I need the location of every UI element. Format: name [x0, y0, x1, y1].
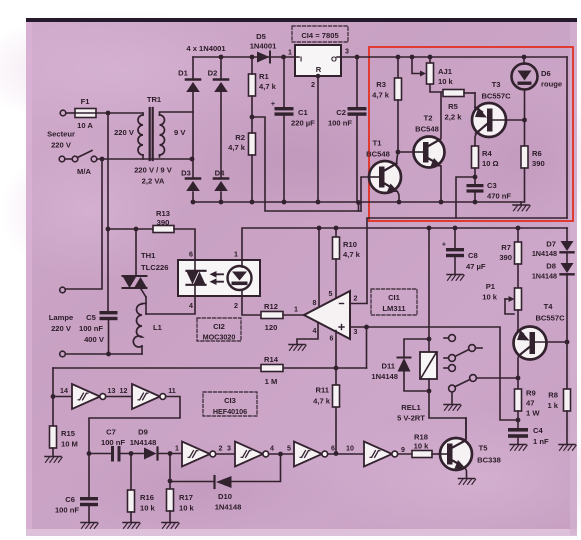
wire R4 to C3 node — [473, 168, 478, 184]
svg-text:5: 5 — [329, 290, 333, 298]
svg-text:P1: P1 — [486, 282, 496, 291]
resistor R2 — [228, 133, 255, 155]
svg-text:100 nF: 100 nF — [55, 506, 79, 515]
svg-text:1: 1 — [288, 49, 292, 57]
resistor R10 — [333, 228, 361, 298]
svg-text:4,7 k: 4,7 k — [259, 82, 277, 91]
svg-text:13: 13 — [108, 387, 116, 395]
svg-text:D5: D5 — [256, 32, 266, 41]
resistor R3 — [372, 57, 401, 100]
svg-text:1 nF: 1 nF — [533, 437, 549, 446]
svg-text:AJ1: AJ1 — [438, 67, 453, 76]
gate inverter 1 — [53, 384, 115, 409]
comparator U CI1 LM311 — [294, 290, 358, 343]
svg-text:220 V / 9 V: 220 V / 9 V — [134, 166, 173, 175]
svg-text:R8: R8 — [548, 391, 558, 400]
svg-text:T3: T3 — [492, 80, 501, 89]
svg-text:10 M: 10 M — [61, 440, 78, 449]
svg-text:HEF40106: HEF40106 — [213, 407, 247, 416]
ground (comparator pin4) — [289, 345, 306, 351]
svg-text:220 V: 220 V — [114, 128, 135, 137]
svg-text:6: 6 — [330, 335, 334, 343]
svg-text:D9: D9 — [138, 428, 148, 437]
wire timing rail left drop to R15 — [51, 368, 56, 426]
svg-text:1 W: 1 W — [526, 409, 540, 418]
svg-text:390: 390 — [157, 218, 170, 227]
svg-text:4: 4 — [270, 445, 274, 453]
diode D2 — [208, 69, 228, 93]
resistor R6 — [521, 120, 545, 202]
ground (C8) — [447, 275, 464, 281]
wire triac feed drop — [134, 227, 139, 275]
svg-text:R7: R7 — [501, 243, 511, 252]
svg-text:47: 47 — [526, 399, 534, 408]
wire lamp bottom terminal to L1 — [60, 351, 142, 357]
svg-text:R16: R16 — [140, 493, 154, 502]
svg-text:10 Ω: 10 Ω — [482, 159, 499, 168]
resistor R18 — [412, 433, 440, 458]
wire +5V output rail — [341, 55, 567, 60]
wire long timing rail — [53, 367, 367, 369]
svg-text:REL1: REL1 — [401, 403, 421, 412]
resistor R1 — [249, 72, 277, 96]
svg-text:2,2 k: 2,2 k — [445, 113, 463, 122]
inductor L1 — [133, 304, 162, 355]
transformer TR1 — [114, 95, 186, 186]
svg-text:R12: R12 — [264, 302, 278, 311]
svg-text:BC548: BC548 — [415, 125, 439, 134]
svg-text:R3: R3 — [376, 80, 386, 89]
gate inverter 4 — [227, 442, 274, 467]
svg-text:D11: D11 — [381, 362, 395, 371]
wire M/A to TR1 primary bottom and bridge left column — [97, 157, 194, 162]
ground (R15) — [45, 457, 62, 463]
svg-text:220 V: 220 V — [51, 324, 72, 333]
wire +9V top rail — [193, 55, 295, 60]
svg-text:R18: R18 — [414, 433, 428, 442]
wire pin3 to R14 rail riser — [366, 327, 368, 368]
capacitor C7 — [101, 428, 144, 462]
svg-text:+: + — [442, 241, 446, 249]
svg-text:6: 6 — [189, 251, 193, 259]
svg-text:9 V: 9 V — [174, 128, 186, 137]
wire R13 to opto pin6 — [174, 229, 195, 260]
regulator U CI4 7805 — [288, 26, 349, 89]
node T3 emitter / D6 junction — [522, 118, 527, 123]
resistor R7 — [499, 228, 521, 288]
triac TH1 — [123, 251, 169, 297]
resistor R8 — [547, 342, 570, 444]
wire opto pin2 to R12 — [242, 296, 261, 315]
svg-text:CI1: CI1 — [388, 293, 401, 302]
svg-text:400 V: 400 V — [84, 335, 105, 344]
relay contacts — [444, 335, 520, 404]
svg-text:9: 9 — [401, 446, 405, 454]
svg-text:10 A: 10 A — [77, 121, 93, 130]
svg-text:Lampe: Lampe — [49, 313, 73, 322]
svg-text:470 nF: 470 nF — [487, 192, 511, 201]
wire inv2 output to oscillator node — [89, 397, 180, 454]
capacitor C3 — [467, 181, 512, 202]
LED D6 — [512, 57, 563, 120]
svg-text:3: 3 — [354, 328, 358, 336]
gate inverter 3 — [175, 442, 223, 467]
svg-text:I: I — [300, 55, 302, 64]
svg-text:100 nF: 100 nF — [328, 119, 352, 128]
wire R12 to comparator output pin1 — [283, 314, 304, 316]
diode D3 — [181, 169, 200, 192]
gate inverter 2 — [120, 384, 176, 409]
svg-text:4,7 k: 4,7 k — [313, 397, 331, 406]
svg-text:D6: D6 — [541, 69, 551, 78]
diode D1 — [178, 69, 200, 93]
svg-text:F1: F1 — [81, 97, 91, 106]
svg-text:10 k: 10 k — [438, 77, 454, 86]
diode D10 feedback — [170, 454, 281, 512]
wire comparator pin2 to sensor output riser — [350, 303, 367, 305]
ground (C6) — [81, 523, 98, 529]
transistor T4 — [514, 302, 570, 360]
svg-text:1N4148: 1N4148 — [215, 503, 242, 512]
svg-text:T5: T5 — [479, 444, 489, 453]
resistor R9 — [515, 389, 541, 423]
svg-text:390: 390 — [499, 253, 512, 262]
svg-text:4,7 k: 4,7 k — [228, 143, 246, 152]
svg-text:BC557C: BC557C — [535, 314, 565, 323]
wire triac gate to L1 / opto pin4 node — [145, 297, 147, 314]
relay REL1 coil — [397, 228, 437, 423]
optocoupler CI2 — [178, 251, 260, 311]
wire bridge right column — [220, 57, 222, 202]
resistor R14 — [261, 355, 283, 386]
wire comparator pin4 to ground — [297, 323, 318, 345]
svg-text:R6: R6 — [532, 149, 542, 158]
svg-text:6: 6 — [331, 445, 335, 453]
svg-text:3: 3 — [345, 48, 349, 56]
svg-text:120: 120 — [265, 323, 278, 332]
svg-text:5: 5 — [287, 445, 291, 453]
transistor T1 — [366, 139, 401, 194]
resistor R12 — [261, 302, 283, 332]
wire C2 stub to rail A — [356, 200, 361, 211]
wire comparator pin3 feedback rail — [350, 325, 518, 420]
resistor R5 — [443, 90, 475, 122]
wire R3 to T1 collector / T2 base node — [396, 100, 401, 154]
wire T2 emitter to ground rail — [440, 166, 442, 202]
wire comparator pin6 riser / R11 column — [334, 331, 339, 456]
wire inv1 to inv2 — [106, 396, 132, 398]
wire opto pin4 to gate node — [146, 296, 195, 314]
svg-text:D10: D10 — [218, 492, 232, 501]
svg-text:CI2: CI2 — [213, 322, 225, 331]
svg-text:10 k: 10 k — [140, 504, 156, 513]
svg-text:D2: D2 — [208, 69, 218, 78]
wire T1 emitter to ground rail — [398, 192, 400, 203]
svg-text:3: 3 — [227, 445, 231, 453]
svg-text:10 k: 10 k — [482, 293, 498, 302]
fuse F1 — [47, 97, 96, 150]
svg-text:4: 4 — [189, 302, 193, 310]
svg-text:R9: R9 — [526, 389, 536, 398]
transistor T5 — [440, 438, 501, 470]
svg-text:C8: C8 — [468, 251, 478, 260]
svg-text:2,2 VA: 2,2 VA — [142, 177, 165, 186]
resistor R15 — [50, 426, 78, 456]
trimmer AJ1 — [412, 57, 454, 92]
svg-text:D7: D7 — [546, 240, 556, 249]
wire TR1 secondary top to bridge — [160, 111, 194, 113]
transistor T3 — [472, 80, 524, 137]
potentiometer P1 — [482, 282, 521, 328]
svg-text:BC338: BC338 — [477, 456, 501, 465]
capacitor C5 — [49, 311, 118, 354]
svg-text:C1: C1 — [298, 108, 308, 117]
svg-text:2: 2 — [311, 81, 315, 89]
wire T4 collector to R9 — [518, 356, 519, 390]
diode D4 — [214, 169, 228, 192]
svg-text:L1: L1 — [153, 323, 163, 332]
svg-text:1: 1 — [294, 306, 298, 314]
gate inverter 5 — [287, 442, 335, 467]
svg-text:47 µF: 47 µF — [466, 262, 486, 271]
svg-text:4: 4 — [313, 327, 317, 335]
svg-text:11: 11 — [168, 387, 176, 395]
wire divider tap to T1 base rail — [252, 117, 361, 211]
svg-text:10 k: 10 k — [414, 442, 430, 451]
resistor R4 — [472, 146, 499, 168]
ground (T5) — [459, 479, 476, 485]
wire C3 node to sensor output — [456, 177, 475, 218]
svg-text:M/A: M/A — [77, 167, 91, 176]
svg-text:100 nF: 100 nF — [101, 438, 125, 447]
resistor R17 — [167, 454, 195, 523]
wire T1 base to T2 — [398, 151, 414, 153]
svg-text:Secteur: Secteur — [47, 130, 75, 139]
wire F1 to TR1 primary top — [96, 111, 143, 116]
svg-text:D1: D1 — [178, 69, 188, 78]
wire +5V rail C — [242, 226, 567, 260]
svg-text:CI4 = 7805: CI4 = 7805 — [301, 31, 339, 40]
highlight box (red) around sensor section — [369, 47, 573, 221]
ground (R16) — [123, 523, 140, 529]
svg-text:C5: C5 — [86, 313, 96, 322]
svg-text:D4: D4 — [215, 169, 225, 178]
svg-text:R4: R4 — [482, 149, 492, 158]
svg-text:10: 10 — [346, 445, 354, 453]
diode D8 — [532, 254, 574, 343]
svg-text:C7: C7 — [106, 428, 116, 437]
svg-text:T2: T2 — [424, 114, 433, 123]
wire M/A node down to lamp terminal — [60, 159, 102, 293]
svg-text:12: 12 — [120, 387, 128, 395]
svg-text:R2: R2 — [235, 133, 245, 142]
svg-text:1: 1 — [175, 445, 179, 453]
wire ground rail A — [191, 200, 524, 205]
svg-text:R15: R15 — [61, 429, 76, 438]
svg-text:14: 14 — [60, 387, 68, 395]
wire T1 base riser — [361, 177, 369, 211]
svg-text:rouge: rouge — [541, 80, 562, 89]
wire T3 collector to R4 — [475, 134, 476, 147]
svg-text:4 x 1N4001: 4 x 1N4001 — [186, 44, 226, 53]
svg-text:1N4148: 1N4148 — [532, 249, 557, 258]
wire bridge left column — [192, 57, 194, 202]
svg-text:C3: C3 — [487, 181, 497, 190]
wire sensor box right edge — [566, 57, 568, 218]
capacitor C1 — [271, 57, 315, 202]
diode D9 — [130, 428, 182, 460]
wire inv6 to R18 — [398, 453, 412, 455]
resistor R16 — [128, 454, 156, 523]
svg-text:R17: R17 — [179, 493, 193, 502]
wire T5 emitter to ground — [466, 469, 467, 479]
svg-text:10 k: 10 k — [179, 504, 195, 513]
svg-text:+: + — [271, 100, 275, 108]
svg-text:R: R — [316, 65, 322, 74]
gate inverter 6 — [346, 442, 405, 467]
svg-text:R14: R14 — [264, 355, 279, 364]
svg-text:1N4001: 1N4001 — [250, 42, 277, 51]
svg-text:1N4148: 1N4148 — [532, 272, 557, 281]
svg-text:TLC226: TLC226 — [141, 263, 168, 272]
svg-text:C4: C4 — [533, 426, 543, 435]
svg-text:220 µF: 220 µF — [291, 119, 315, 128]
capacitor C2 — [328, 55, 367, 202]
svg-text:1 M: 1 M — [265, 377, 278, 386]
diode D5 — [250, 32, 277, 63]
wire F1 node down to C5 — [107, 113, 109, 311]
svg-text:MOC3020: MOC3020 — [203, 333, 236, 342]
svg-text:D3: D3 — [181, 169, 191, 178]
svg-text:TR1: TR1 — [147, 95, 162, 104]
svg-text:390: 390 — [532, 159, 545, 168]
ground (R17) — [162, 523, 179, 529]
svg-text:1 k: 1 k — [547, 401, 558, 410]
svg-text:4,7 k: 4,7 k — [372, 91, 390, 100]
ground (relay contact) — [444, 405, 461, 411]
svg-text:5 V-2RT: 5 V-2RT — [397, 414, 425, 423]
svg-text:T4: T4 — [544, 302, 554, 311]
svg-text:R1: R1 — [259, 72, 269, 81]
svg-text:T1: T1 — [373, 139, 383, 148]
ground (R8) — [559, 445, 576, 451]
ground (C4) — [510, 445, 527, 451]
wire oscillator node row — [87, 451, 111, 456]
capacitor C6 — [55, 454, 98, 523]
switch M/A — [59, 151, 97, 177]
svg-text:BC557C: BC557C — [481, 92, 511, 101]
box label CI1 LM311 — [371, 289, 417, 315]
diode D7 — [532, 228, 574, 258]
svg-text:1N4148: 1N4148 — [371, 372, 398, 381]
transistor T2 — [414, 114, 445, 168]
box label CI3 HEF40106 — [203, 392, 257, 416]
svg-text:2: 2 — [234, 302, 238, 310]
wire inv5 to inv6 — [328, 453, 364, 455]
wire T1 collector up — [397, 152, 399, 164]
wire inv4 to inv5 — [269, 452, 294, 457]
svg-text:BC548: BC548 — [366, 150, 390, 159]
svg-text:R10: R10 — [343, 240, 357, 249]
svg-text:220 V: 220 V — [51, 141, 72, 150]
resistor R11 — [313, 385, 339, 407]
svg-text:100 nF: 100 nF — [79, 324, 103, 333]
wire R1/R2 column — [250, 57, 255, 202]
ground (PSU rail) — [513, 202, 530, 211]
capacitor C8 — [442, 228, 486, 274]
capacitor C4 — [508, 420, 549, 446]
box label CI2 MOC3020 — [197, 318, 241, 342]
wire relay coil to T5 collector — [429, 391, 466, 440]
wire 7805 pin2 to ground rail — [317, 76, 319, 202]
wire sensor box bottom edge to comparator pin2 riser — [367, 218, 567, 303]
diode D11 — [371, 339, 429, 391]
svg-text:R11: R11 — [315, 386, 329, 395]
svg-text:8: 8 — [313, 299, 317, 307]
svg-text:R13: R13 — [156, 209, 170, 218]
resistor R13 — [106, 209, 174, 233]
svg-text:LM311: LM311 — [382, 304, 406, 313]
svg-text:O: O — [331, 55, 337, 64]
svg-text:4,7 k: 4,7 k — [343, 250, 361, 259]
svg-text:R5: R5 — [448, 102, 458, 111]
svg-text:C2: C2 — [336, 108, 346, 117]
svg-text:TH1: TH1 — [141, 251, 156, 260]
wire inv3 to inv4 — [216, 453, 235, 455]
wire T2 collector riser — [440, 93, 442, 139]
wire comparator pin8 riser — [318, 228, 320, 306]
svg-text:C6: C6 — [65, 495, 75, 504]
svg-text:CI3: CI3 — [224, 396, 236, 405]
svg-text:1: 1 — [234, 251, 238, 259]
svg-text:1N4148: 1N4148 — [130, 438, 157, 447]
wire T5 collector up — [465, 418, 467, 441]
svg-text:D8: D8 — [546, 262, 556, 271]
svg-text:2: 2 — [354, 295, 358, 303]
svg-text:2: 2 — [219, 445, 223, 453]
node label 4 x 1N4001 — [186, 44, 226, 53]
